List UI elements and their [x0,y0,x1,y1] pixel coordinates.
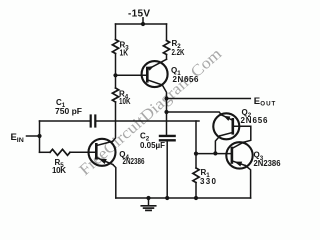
wire C2 to ground rail [166,140,168,198]
junction dot R1/Q3 base [194,152,198,156]
wire Q1 collector to node [162,85,166,136]
wire Ein junction vertical [39,121,41,152]
wire Ein lead [27,135,40,137]
wire ground rail [116,197,251,199]
wire R2 to Q1 emitter [166,55,168,60]
svg-text:E: E [254,96,260,107]
svg-text:10K: 10K [119,97,131,106]
arrow Q3 emitter [234,162,242,167]
svg-text:0.05µF: 0.05µF [140,141,165,150]
svg-text:2.2K: 2.2K [172,48,185,57]
wire C1 left [40,120,90,122]
wire Q4 emitter down to rail [113,165,116,199]
wire Q3 emitter down to rail [245,166,250,199]
junction dot supply [141,22,145,26]
wire R3 to R4 (base node) [115,54,117,89]
svg-text:Q: Q [171,66,177,75]
transistor Q1 body [142,61,168,87]
wire R2 top [166,24,168,41]
junction dot Q2 emitter node [164,110,168,114]
junction dot ground [146,196,150,200]
resistor R2 [163,41,169,55]
capacitor C2 plates [160,135,175,137]
svg-text:OUT: OUT [260,100,275,107]
wire left vertical to R3 [115,24,117,40]
svg-text:2N2386: 2N2386 [254,159,282,168]
wire R1 vertical top [195,121,197,168]
node -15V supply stub [142,18,144,24]
wire R5 lead left [40,151,51,153]
wire R4 down to Q4 collector [113,102,116,141]
resistor R1 [193,168,199,183]
junction dot Eout node [164,96,168,100]
svg-text:-15V: -15V [128,8,150,19]
wire R5 to Q4 base [70,151,96,153]
junction dot R1 bottom [194,196,198,200]
arrow Q1 emitter [148,66,154,71]
wire R1 bottom [195,183,197,199]
wire Q2 emitter line [167,112,222,115]
arrow Q4 emitter [99,159,107,165]
resistor R3 [112,40,118,54]
wire Q2 collector to Q3 base node [215,136,220,154]
arrow Q2 emitter [224,116,231,121]
svg-text:1K: 1K [120,48,129,57]
resistor R5 [50,149,70,155]
wire C1 right to R1 top [96,120,199,122]
junction dot Q1 base node [113,73,117,77]
ground symbol [148,198,150,206]
svg-text:2N656: 2N656 [241,116,269,125]
wire Eout line [167,98,251,100]
svg-text:750 pF: 750 pF [55,107,82,116]
wire Q1 base lead [116,74,148,76]
resistor R4 [112,88,118,102]
capacitor C1 plates [90,116,92,127]
transistor Q3 body [226,142,252,168]
transistor Q2 body (mirrored) [213,113,239,139]
svg-text:IN: IN [17,137,25,144]
junction dot C2 bottom [165,196,169,200]
svg-text:330: 330 [200,177,217,186]
wire Q3 base line [196,153,232,155]
junction dot Q2 collector/Q3 base [213,151,217,155]
transistor Q4 body [89,139,116,166]
svg-text:2N656: 2N656 [173,75,200,84]
wire top rail [116,23,167,25]
svg-text:2N2386: 2N2386 [123,157,145,166]
wire Q2 base to Q3 collector [233,126,251,142]
svg-text:10K: 10K [52,166,66,175]
junction dot Ein [37,134,41,138]
